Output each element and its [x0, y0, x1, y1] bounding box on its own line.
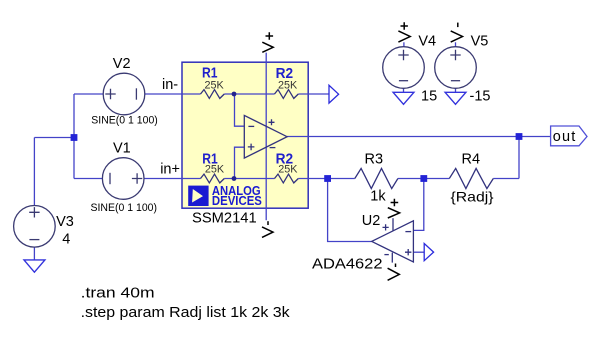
resistor R2 (bottom, in U1)	[275, 174, 299, 183]
svg-text:in-: in-	[162, 77, 178, 93]
wire: left vertical bus	[73, 94, 75, 179]
wire: V2 right to R1 top	[145, 93, 201, 95]
wire: V2 left stub	[74, 93, 103, 95]
wire: V3 vertical stub	[33, 138, 35, 206]
wire: V5 bottom stub	[455, 88, 457, 92]
Analog Devices logo	[188, 183, 262, 208]
svg-text:SINE(0 1 100): SINE(0 1 100)	[91, 202, 158, 214]
wire: op-amp output row to out	[287, 136, 519, 138]
wire: V3 to ground	[33, 247, 35, 260]
voltage source V4	[383, 47, 425, 89]
svg-text:V4: V4	[418, 33, 436, 49]
node A (junction dot top)	[232, 92, 237, 97]
wire: node to op-amp inverting input	[235, 94, 245, 126]
wire: U2 non-inverting input to port arrow	[413, 251, 424, 253]
junction square at out node	[516, 133, 523, 140]
svg-text:.tran 40m: .tran 40m	[81, 286, 155, 302]
junction square between R3 and R4	[420, 175, 427, 182]
svg-text:25K: 25K	[278, 164, 298, 176]
svg-text:R4: R4	[462, 151, 481, 167]
junction square at U2 output net	[324, 175, 331, 182]
resistor R1 (bottom, in U1)	[201, 174, 225, 183]
wire: R3 to junction	[398, 178, 424, 180]
voltage source V5	[435, 47, 477, 89]
resistor R1 (top, in U1)	[201, 90, 225, 99]
svg-text:.step param Radj list 1k 2k 3k: .step param Radj list 1k 2k 3k	[81, 305, 291, 321]
svg-text:{Radj}: {Radj}	[451, 188, 494, 204]
wire: V5 top stub	[455, 42, 457, 47]
wire: R3/R4 junction down to U2 inverting input	[413, 179, 423, 231]
flag V- above V5	[451, 23, 463, 42]
svg-text:25K: 25K	[278, 80, 298, 92]
svg-text:U2: U2	[362, 213, 381, 229]
svg-text:V1: V1	[113, 140, 131, 156]
SSM2141 symbol body (yellow box) U1	[182, 62, 308, 208]
svg-text:1k: 1k	[370, 188, 386, 204]
flag V+ above U1	[262, 32, 273, 52]
svg-text:25K: 25K	[205, 80, 225, 92]
wire: V4 bottom stub	[403, 88, 405, 92]
svg-text:SSM2141: SSM2141	[192, 211, 257, 227]
junction square left	[71, 134, 78, 141]
wire: V4 top stub	[403, 42, 405, 47]
wire: junction down to U2 output	[328, 179, 372, 242]
out flag	[551, 126, 587, 146]
wire: R1 bottom to R2 bottom through node	[224, 178, 274, 180]
svg-text:SINE(0 1 100): SINE(0 1 100)	[91, 114, 158, 126]
op-amp inside U1	[244, 115, 287, 158]
resistor R2 (top, in U1)	[275, 90, 299, 99]
svg-text:out: out	[553, 129, 576, 145]
flag V+ above V4	[398, 22, 410, 42]
svg-text:4: 4	[62, 232, 70, 248]
port arrow at R2 top output	[329, 85, 339, 103]
flag V- below U1	[262, 221, 273, 237]
wire: junction to R4	[424, 178, 450, 180]
svg-text:-15: -15	[470, 89, 491, 105]
wire: R2 bottom to junction	[298, 178, 327, 180]
wire: junction to out flag	[519, 136, 551, 138]
wire: V1 left stub	[74, 178, 102, 180]
wire: V1 right to R1 bottom	[144, 178, 201, 180]
voltage source V3	[14, 206, 56, 248]
flag V+ above U2	[388, 199, 400, 218]
svg-text:25K: 25K	[205, 164, 225, 176]
op-amp U2 ADA4622	[372, 218, 414, 262]
port arrow at U2 non-inverting input	[424, 244, 433, 261]
wire: junction to R3	[328, 178, 355, 180]
wire: V3 horizontal to junction	[34, 137, 74, 139]
wire: V+ supply vertical through U1	[265, 53, 267, 221]
wire: R1 top to R2 top through node	[224, 93, 274, 95]
wire: node to op-amp non-inverting input	[235, 147, 245, 178]
ground under V5	[445, 92, 466, 104]
ground under V4	[393, 92, 414, 104]
svg-text:V2: V2	[113, 56, 131, 72]
svg-text:in+: in+	[160, 162, 180, 178]
voltage source V1	[102, 158, 144, 200]
svg-text:DEVICES: DEVICES	[212, 193, 262, 208]
svg-text:V5: V5	[471, 33, 489, 49]
flag V- below U2	[388, 264, 400, 281]
svg-text:ADA4622: ADA4622	[312, 257, 383, 273]
ground under V3	[24, 260, 45, 272]
wire: R2 top to port arrow	[298, 93, 329, 95]
wire: out junction down to R4	[518, 137, 520, 179]
wire: R4 to corner	[493, 178, 519, 180]
resistor R4	[449, 168, 493, 188]
svg-text:R3: R3	[365, 151, 384, 167]
svg-text:V3: V3	[56, 214, 74, 230]
svg-text:15: 15	[421, 89, 437, 105]
node B (junction dot bottom)	[232, 176, 237, 181]
resistor R3	[355, 168, 398, 188]
voltage source V2	[103, 73, 145, 115]
